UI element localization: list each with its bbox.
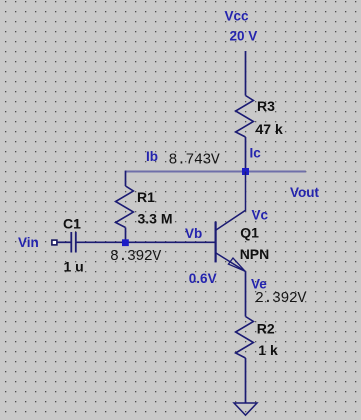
svg-text:1 k: 1 k — [258, 342, 278, 358]
wire emitter to R2 — [245, 271, 247, 316]
svg-text:Vb: Vb — [185, 226, 202, 241]
svg-text:Vc: Vc — [252, 208, 269, 223]
svg-text:8.392V: 8.392V — [110, 249, 161, 265]
junction at Ic node — [242, 168, 249, 175]
svg-text:Ib: Ib — [146, 149, 158, 164]
svg-text:C1: C1 — [63, 216, 81, 232]
svg-text:3.3 M: 3.3 M — [138, 211, 173, 227]
wire R3 to node Ic — [245, 137, 247, 172]
resistor R3 — [236, 96, 254, 138]
svg-text:NPN: NPN — [240, 246, 270, 262]
transistor Q1 emitter arrow — [228, 258, 245, 271]
svg-text:R3: R3 — [257, 98, 275, 114]
wire horizontal collector net — [126, 171, 306, 173]
svg-text:Ic: Ic — [250, 146, 262, 161]
resistor R2 — [236, 317, 254, 359]
svg-text:R2: R2 — [257, 321, 275, 337]
svg-text:Vin: Vin — [18, 235, 39, 250]
wire R1 to node Vb — [125, 228, 127, 243]
svg-text:1 u: 1 u — [64, 259, 84, 275]
svg-text:Q1: Q1 — [240, 224, 259, 240]
transistor Q1 emitter stroke — [216, 253, 245, 271]
svg-text:R1: R1 — [137, 189, 155, 205]
wire C1 to node Vb junction — [76, 241, 215, 243]
resistor R1 — [116, 186, 134, 228]
wire Vin to C1 — [57, 241, 71, 243]
transistor Q1 collector stroke — [216, 172, 246, 231]
svg-text:2.392V: 2.392V — [255, 291, 306, 307]
transistor Q1 base bar — [215, 222, 217, 263]
svg-text:20 V: 20 V — [230, 29, 258, 44]
wire Vcc to R3 — [245, 51, 247, 96]
svg-text:Vcc: Vcc — [225, 9, 250, 24]
svg-text:Ve: Ve — [251, 277, 267, 292]
svg-text:Vout: Vout — [290, 185, 319, 200]
svg-text:0.6V: 0.6V — [189, 271, 217, 286]
svg-text:8.743V: 8.743V — [169, 153, 220, 169]
wire R2 to ground — [245, 358, 247, 403]
port Vin pin square — [52, 240, 57, 245]
ground — [234, 403, 257, 415]
capacitor C1 — [71, 232, 76, 253]
wire corner down to R1 — [125, 171, 127, 186]
svg-text:47 k: 47 k — [256, 121, 283, 137]
junction at Vb node — [122, 239, 129, 246]
